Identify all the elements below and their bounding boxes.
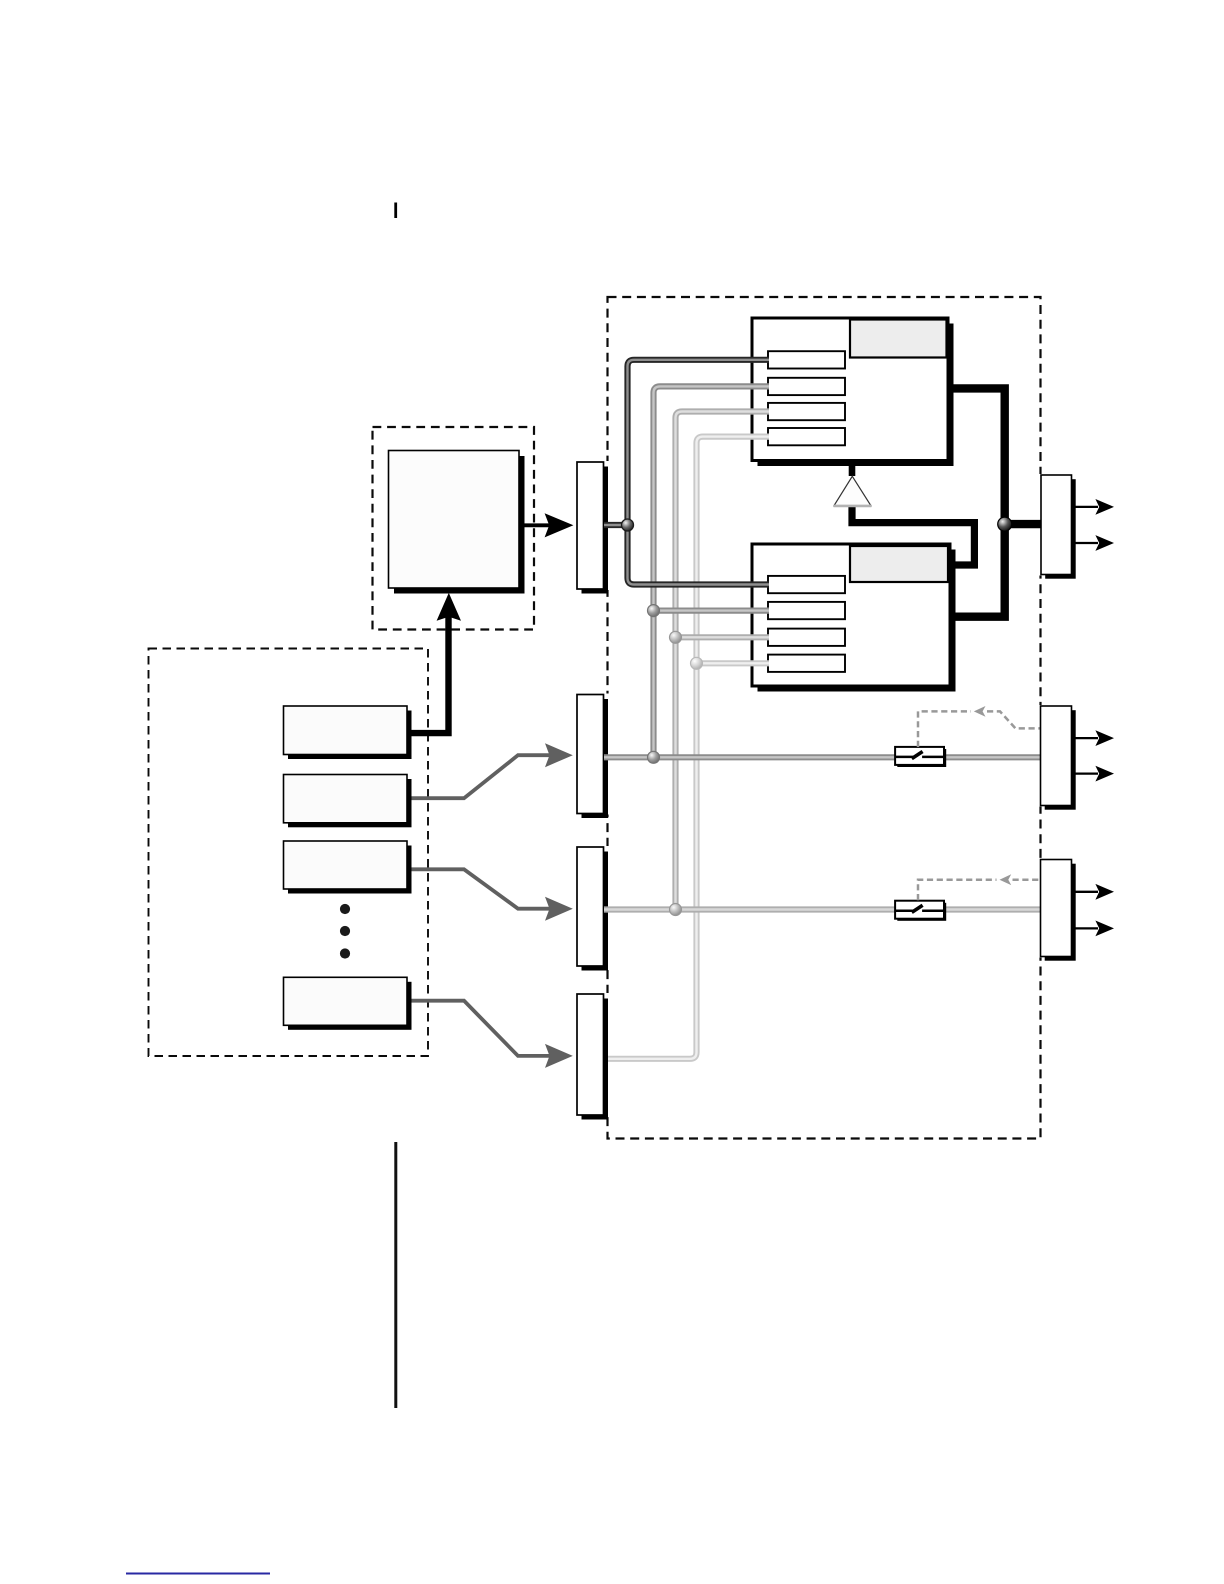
output arrows R2 <box>1075 884 1114 936</box>
tall register T4 <box>577 994 608 1120</box>
arrow square box to T1 <box>522 513 573 537</box>
block box B1 <box>284 706 412 759</box>
arrow B1 up to square box <box>407 593 461 733</box>
output arrows R0 <box>1075 499 1114 551</box>
buffer triangle <box>834 476 872 506</box>
tall register T3 <box>577 847 608 971</box>
junction ball row2 <box>670 904 682 916</box>
arrow B3 to T3 <box>412 869 573 920</box>
junction ball row1 <box>648 751 660 763</box>
wire bus medium <box>654 386 770 757</box>
thick wire box to buffer <box>849 459 856 476</box>
arrow B2 to T2 <box>412 743 573 798</box>
thick wire top box output <box>948 388 1005 616</box>
dashed feedback row1 <box>918 706 1041 747</box>
arrow B4 to T4 <box>412 1001 573 1068</box>
wire row2 to output <box>604 906 1042 912</box>
switch SW1 <box>895 747 946 767</box>
square box (upper middle) <box>389 451 525 594</box>
tall register T1 <box>577 462 608 594</box>
junction ball medium tee <box>648 605 660 617</box>
thick wire buffer to bottom box <box>852 505 974 565</box>
tall register T2 <box>577 695 608 819</box>
vertical rule bottom left <box>394 1142 397 1408</box>
ellipsis dots <box>340 904 350 959</box>
dash masks behind output blocks <box>605 461 1042 1116</box>
block box B3 <box>284 841 412 894</box>
dashed container right (main block) <box>608 297 1041 1139</box>
wire bus light <box>676 412 770 910</box>
wire bus lightest <box>608 437 769 1059</box>
wire bus dark <box>604 360 769 585</box>
block box B2 <box>284 775 412 828</box>
dashed container upper middle <box>373 427 535 630</box>
wire row1 to output <box>604 754 1042 760</box>
switch SW2 <box>895 901 946 921</box>
junction ball lightest tee <box>691 657 703 669</box>
blue footnote rule <box>126 1573 270 1575</box>
dashed container left <box>149 649 429 1057</box>
output block R2 <box>1041 860 1076 961</box>
output block R1 <box>1041 706 1076 810</box>
junction ball light tee <box>670 631 682 643</box>
big module box top <box>752 318 954 466</box>
junction ball black <box>998 517 1012 531</box>
tick mark top <box>394 203 397 219</box>
output arrows R1 <box>1075 730 1114 781</box>
big module box bottom <box>752 544 956 692</box>
junction ball dark <box>622 519 634 531</box>
output block R0 <box>1041 475 1076 579</box>
thick wire to output block <box>1005 520 1042 528</box>
block box B4 <box>284 977 412 1030</box>
dashed feedback row2 <box>918 874 1041 900</box>
